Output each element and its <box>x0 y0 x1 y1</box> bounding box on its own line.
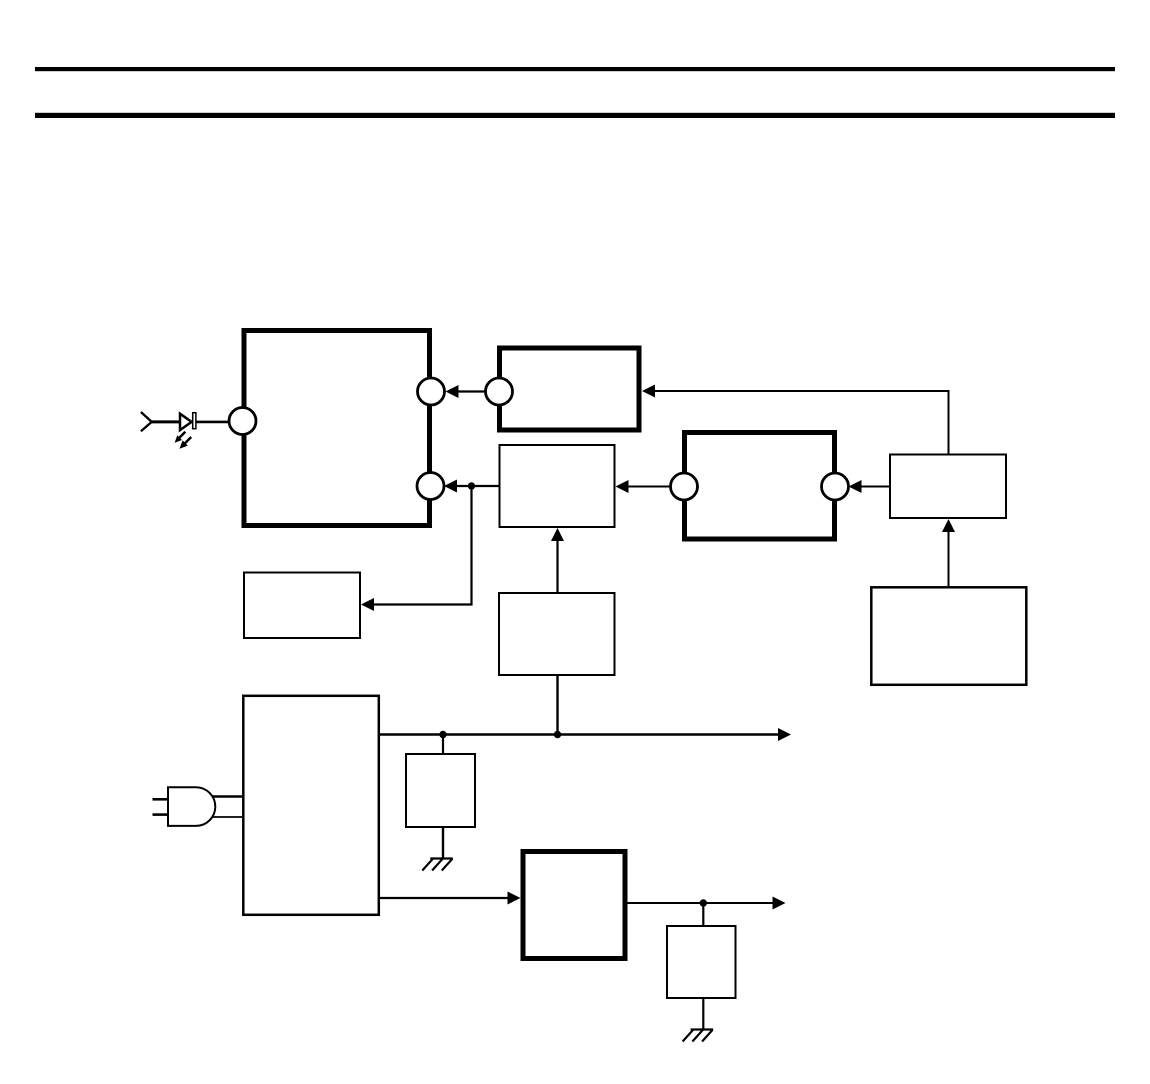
block sub unit top (thick) <box>500 348 640 430</box>
block power supply (thin) <box>243 696 378 915</box>
block filter cap 2 (thin) <box>667 926 736 998</box>
junction node A <box>468 482 475 489</box>
wire controller to driver arrow <box>942 519 955 587</box>
AC plug body <box>168 787 215 826</box>
block converter (thick) <box>523 852 625 959</box>
connector circle processor-right <box>822 473 849 500</box>
light ray arrow 2 <box>180 437 192 449</box>
AC plug prong 1 <box>153 798 169 801</box>
wire regulator to interface arrow <box>551 528 564 593</box>
light ray arrow 1 <box>175 432 186 443</box>
wire node A to indicator arrow <box>361 486 472 611</box>
header rule top <box>35 67 1115 71</box>
wire feedback driver-top to sub <box>642 385 949 454</box>
wire processor to interface arrow <box>616 480 671 493</box>
photodiode D1 triangle <box>180 414 192 430</box>
block filter cap 1 (thin) <box>406 754 475 827</box>
block interface (thin) <box>500 445 615 527</box>
ground 1 <box>422 859 453 871</box>
wire interface to main arrow <box>444 480 499 493</box>
connector circle processor-left <box>671 473 698 500</box>
connector circle main-right-top <box>418 378 445 405</box>
block driver (thin) <box>890 455 1006 519</box>
IR input chevron <box>141 412 152 431</box>
wire regulator to power rail <box>556 676 558 735</box>
junction node C <box>554 731 561 738</box>
wire chevron to photodiode <box>151 420 179 423</box>
AC cord line 1 <box>212 795 242 798</box>
wire sub to main arrow <box>446 385 486 398</box>
junction node D <box>700 899 707 906</box>
wire node D to filter cap 2 <box>702 903 704 926</box>
wire power rail arrow <box>380 728 791 741</box>
wire filter cap 2 to ground <box>702 998 704 1030</box>
wire photodiode to connector circle <box>196 421 230 424</box>
ground 2 <box>683 1030 714 1042</box>
wire converter output arrow <box>628 897 786 910</box>
wire node B to filter cap 1 <box>442 735 444 755</box>
block processor (thick) <box>685 433 835 540</box>
block controller (thin) <box>871 587 1026 685</box>
AC plug prong 2 <box>153 813 169 816</box>
wire filter cap 1 to ground <box>442 828 444 859</box>
photodiode D1 cathode bar <box>193 413 196 429</box>
connector circle main-left <box>229 408 256 435</box>
block indicator (thin) <box>244 573 360 639</box>
header rule bottom <box>35 113 1115 118</box>
AC cord line 2 <box>212 816 242 818</box>
connector circle main-right-bottom <box>417 473 444 500</box>
wire driver to processor arrow <box>849 480 890 493</box>
junction node B <box>439 731 446 738</box>
block regulator (thin) <box>499 593 615 675</box>
block main unit (thick) <box>244 331 430 526</box>
connector circle sub-left <box>486 378 513 405</box>
wire power supply to converter arrow <box>380 892 521 905</box>
